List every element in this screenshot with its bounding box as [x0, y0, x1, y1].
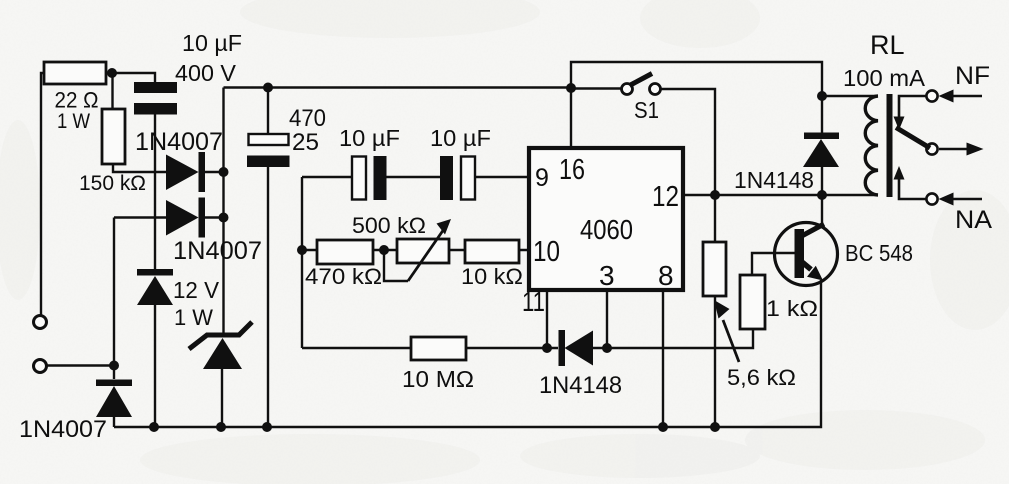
wire node to electrolytic 470/25 — [267, 88, 269, 135]
wire 10M row — [302, 330, 753, 348]
wire node to relay rail — [571, 62, 822, 96]
wire timing column — [301, 177, 303, 348]
svg-text:1N4148: 1N4148 — [734, 167, 814, 193]
wire D2 anode column down — [113, 218, 115, 366]
svg-text:10 µF: 10 µF — [339, 125, 400, 151]
contact armature — [896, 128, 930, 149]
resistor 1k — [740, 275, 765, 329]
wire NF arrow in — [939, 90, 983, 103]
resistor 22R — [44, 62, 106, 84]
wire zener 12V to bus — [154, 305, 156, 427]
wire pin 8 — [662, 290, 664, 427]
svg-text:22 Ω: 22 Ω — [55, 88, 99, 113]
wire 150k to D1 anode — [113, 164, 166, 172]
svg-text:1 kΩ: 1 kΩ — [766, 296, 818, 321]
contact NA circle — [926, 193, 937, 204]
node D2 cathode — [219, 213, 229, 223]
top bus wire — [224, 86, 572, 88]
wire wiper L — [384, 250, 408, 281]
label arrow 5.6k — [714, 300, 739, 362]
node relay coil top — [817, 91, 827, 101]
svg-text:470 kΩ: 470 kΩ — [305, 264, 382, 289]
node bus bent zener — [216, 422, 226, 432]
svg-text:3: 3 — [599, 260, 615, 291]
terminal lower — [34, 360, 47, 373]
svg-text:10 MΩ: 10 MΩ — [402, 366, 474, 392]
resistor 10k — [465, 240, 519, 263]
node D1 cathode — [219, 167, 229, 177]
svg-text:1N4007: 1N4007 — [19, 416, 107, 443]
diode 1N4148 D3 — [559, 330, 594, 366]
capacitor 10uF a — [352, 156, 387, 200]
svg-text:1 W: 1 W — [57, 110, 90, 133]
resistor 5.6k — [703, 242, 726, 296]
svg-text:NF: NF — [955, 62, 990, 90]
svg-text:12: 12 — [652, 181, 679, 213]
IC 4060 — [529, 148, 683, 290]
wire D2 anode from lower node column — [114, 216, 166, 218]
svg-text:8: 8 — [658, 260, 674, 291]
wire S1 to pin12 column — [661, 89, 716, 195]
svg-text:10: 10 — [533, 236, 560, 268]
relay core — [887, 94, 893, 197]
wire collector — [821, 195, 823, 226]
wire base 1k — [752, 253, 795, 275]
wire node to switch S1 — [571, 87, 622, 89]
svg-text:S1: S1 — [634, 97, 659, 123]
wire cap 400V down to zener 12V — [154, 115, 156, 270]
wire 22R to node A — [106, 72, 112, 74]
contact NF lever — [894, 96, 927, 130]
node timing column row 250 — [297, 245, 307, 255]
wire left column from 22ohm down to terminal — [41, 73, 44, 316]
node 5.6k bus — [710, 422, 720, 432]
wire diode D4 column — [821, 96, 823, 195]
svg-text:9: 9 — [535, 164, 549, 192]
wire rectified column x=223 — [222, 88, 224, 336]
node bus zener12 — [149, 422, 159, 432]
zener diode 12V 1W — [137, 269, 173, 305]
wire pin 3 — [606, 290, 608, 348]
svg-text:100 mA: 100 mA — [843, 65, 926, 91]
node top rail S1 — [566, 83, 576, 93]
svg-text:400 V: 400 V — [175, 60, 237, 86]
wire coil top — [822, 95, 878, 97]
svg-text:10 µF: 10 µF — [430, 125, 491, 151]
svg-text:1N4148: 1N4148 — [539, 372, 622, 399]
node A — [107, 68, 117, 78]
svg-text:10 kΩ: 10 kΩ — [461, 264, 523, 289]
wire bent zener to bus — [221, 369, 223, 427]
wire row 250 segments — [302, 249, 529, 251]
wire D1 cathode to right column — [205, 171, 223, 173]
wire node A down to 150k — [111, 73, 113, 109]
svg-text:1N4007: 1N4007 — [173, 237, 262, 265]
svg-text:4060: 4060 — [580, 214, 633, 245]
capacitor 470/25 — [247, 134, 290, 167]
wire pin 11 — [546, 290, 548, 348]
svg-text:11: 11 — [522, 286, 545, 317]
transistor BC548 — [775, 223, 838, 286]
node wiper junction — [379, 245, 389, 255]
node pin 8 bus — [658, 422, 668, 432]
wire pin 12 row to coil — [683, 194, 878, 196]
wire D2 cathode to right column — [205, 216, 223, 218]
wire common arrow out — [939, 143, 984, 156]
svg-text:150 kΩ: 150 kΩ — [79, 172, 146, 195]
svg-text:12 V: 12 V — [173, 277, 220, 303]
node relay coil bottom — [817, 190, 827, 200]
diode 1N4007 D1 — [166, 152, 205, 192]
potentiometer 500k — [397, 219, 451, 281]
wire D5 to bottom bus — [113, 417, 115, 427]
svg-text:500 kΩ: 500 kΩ — [352, 213, 426, 238]
wire node to pin 16 — [570, 88, 572, 148]
wire caps row to pin 9 — [302, 176, 529, 178]
resistor 150k — [102, 109, 125, 164]
node pin 12 — [710, 190, 720, 200]
node filter cap top — [263, 83, 273, 93]
node pin 11 — [542, 343, 552, 353]
wire node A to cap 400V — [112, 73, 155, 82]
diode 1N4007 D5 — [96, 380, 132, 418]
svg-text:10 µF: 10 µF — [182, 30, 242, 56]
node bus 470cap — [262, 422, 272, 432]
wire 470/25 to bus — [267, 167, 269, 427]
svg-text:NA: NA — [955, 206, 992, 234]
svg-text:16: 16 — [559, 154, 585, 186]
resistor 10M — [411, 337, 466, 360]
diode 1N4007 D2 — [166, 198, 205, 238]
capacitor 10uF 400V — [134, 82, 177, 115]
switch S1 — [622, 74, 661, 95]
wire node to diode D5 — [113, 366, 115, 380]
contact NF circle — [926, 90, 937, 101]
node lower input — [109, 361, 119, 371]
svg-text:1N4007: 1N4007 — [135, 128, 223, 156]
svg-text:25: 25 — [292, 129, 319, 156]
contact common circle — [926, 143, 937, 154]
contact NA lever — [894, 166, 927, 199]
svg-text:1 W: 1 W — [174, 305, 213, 330]
wire emitter to bus — [114, 280, 821, 427]
capacitor 10uF b — [440, 156, 475, 200]
wire NA arrow in — [939, 193, 983, 206]
svg-text:5,6 kΩ: 5,6 kΩ — [727, 365, 796, 390]
resistor 470k — [317, 240, 373, 264]
wire lower terminal to node — [47, 364, 115, 366]
terminal upper — [34, 316, 47, 329]
diode 1N4148 D4 — [803, 133, 839, 168]
svg-text:BC 548: BC 548 — [845, 240, 913, 266]
relay coil RL — [865, 96, 878, 195]
svg-text:RL: RL — [870, 30, 905, 60]
svg-text:470: 470 — [289, 105, 326, 132]
zener diode bent-bar — [189, 322, 252, 369]
node pin 3 — [602, 343, 612, 353]
wire 5.6k column — [714, 195, 716, 427]
